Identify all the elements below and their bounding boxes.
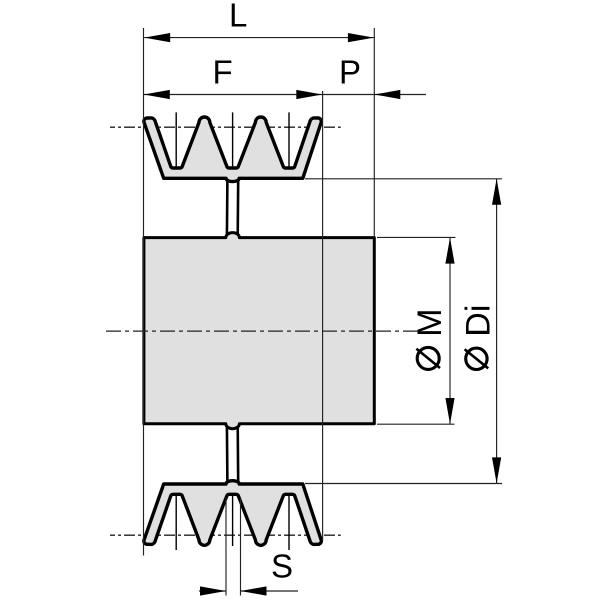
svg-text:S: S	[271, 548, 293, 585]
dimension line S right	[241, 590, 299, 592]
dimension line P	[374, 94, 426, 96]
dimension line M	[449, 238, 451, 424]
thin lines	[144, 28, 503, 596]
L left arrow	[144, 33, 170, 42]
Di extension top	[305, 178, 502, 180]
P arrow	[374, 90, 400, 99]
M bottom arrow	[445, 398, 454, 424]
M top arrow	[445, 238, 454, 264]
pitch line top (behind rim)	[110, 126, 341, 128]
dimension line F	[144, 94, 374, 96]
svg-text:P: P	[339, 53, 361, 90]
L right arrow	[348, 33, 374, 42]
arrowheads	[144, 33, 501, 596]
svg-text:F: F	[213, 54, 233, 91]
Di bottom arrow	[492, 457, 501, 483]
F right arrow	[296, 90, 322, 99]
axis centerline dash-dot	[106, 330, 422, 332]
Di extension bottom	[305, 483, 502, 485]
svg-text:M: M	[411, 308, 449, 336]
bottom rim (mirrored)	[144, 481, 322, 546]
dimension line Di	[496, 179, 498, 484]
S left arrow	[200, 586, 226, 595]
label Ø Di diameter symbol	[466, 348, 487, 369]
S extension right	[240, 497, 242, 596]
pitch line bottom (behind rim)	[110, 534, 341, 536]
top rim	[144, 117, 322, 182]
S extension left	[225, 497, 227, 596]
F left arrow	[144, 90, 170, 99]
groove center ticks	[176, 112, 289, 550]
M extension top	[377, 236, 456, 238]
M extension bottom	[377, 423, 455, 425]
svg-text:L: L	[229, 0, 247, 34]
dimension line L	[144, 37, 374, 39]
extension line L right / P	[373, 28, 375, 237]
top web	[227, 180, 238, 237]
extension line left (L/F)	[143, 28, 145, 556]
hub	[144, 233, 374, 429]
S right arrow	[241, 586, 267, 595]
dimension line S left	[199, 590, 226, 592]
extension line F right	[322, 91, 324, 541]
Di top arrow	[492, 179, 501, 205]
label Ø M diameter symbol	[417, 347, 439, 369]
bottom web (mirrored)	[227, 426, 238, 483]
svg-text:Di: Di	[459, 305, 497, 337]
